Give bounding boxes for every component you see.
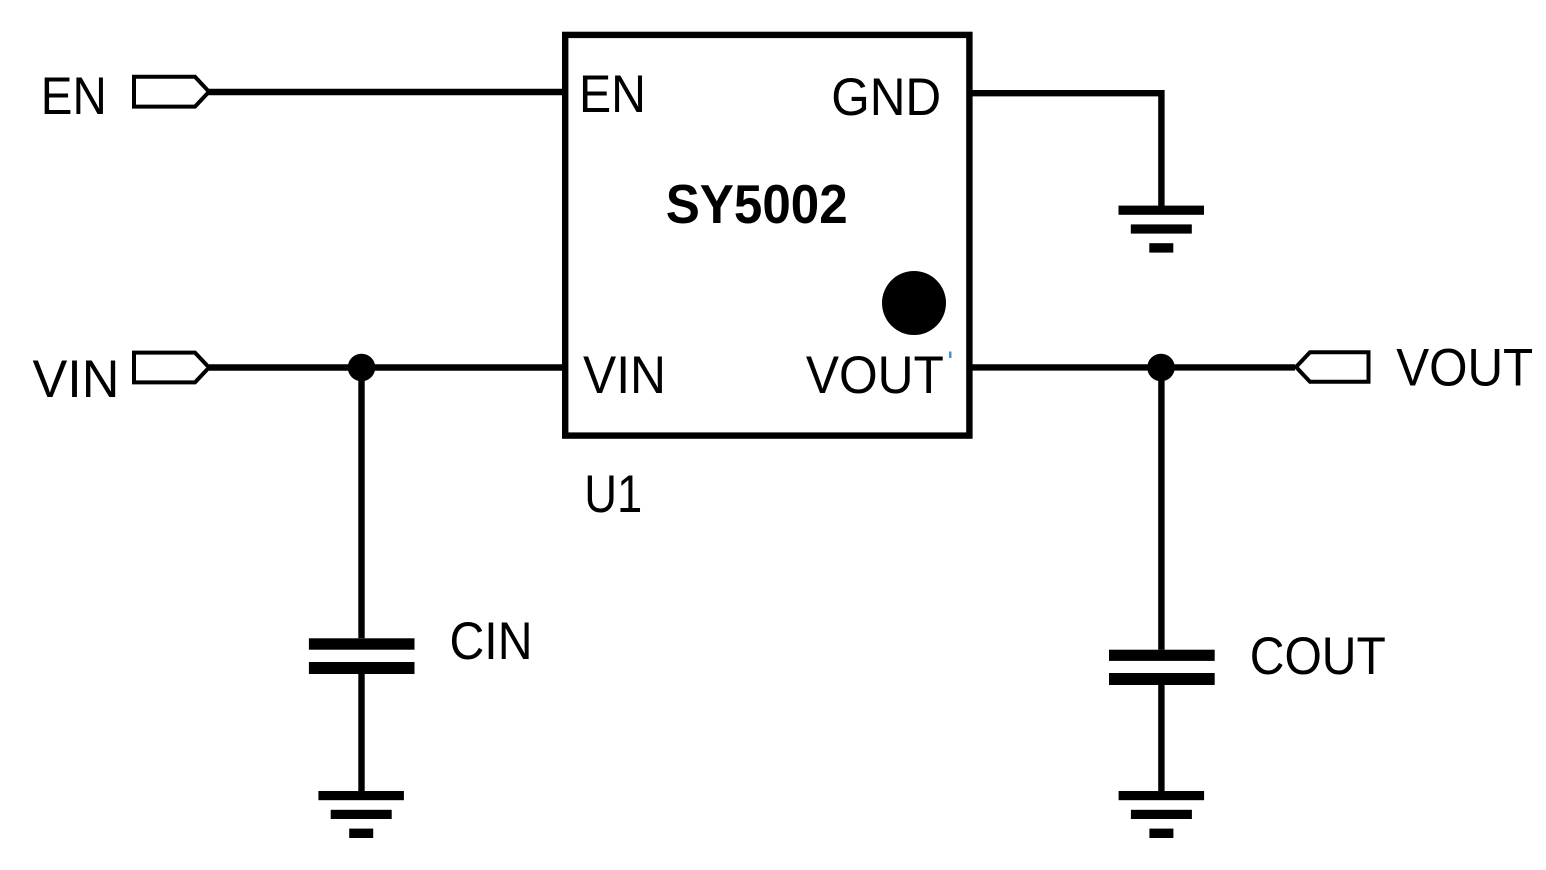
wire CIN to ground	[358, 674, 364, 792]
svg-text:EN: EN	[579, 65, 646, 124]
wire VOUT node down to COUT	[1158, 368, 1164, 650]
svg-text:VIN: VIN	[583, 346, 666, 405]
svg-text:COUT: COUT	[1250, 627, 1386, 686]
port VOUT	[1296, 352, 1369, 382]
op-amp U1 SY5002 regulator body	[565, 35, 969, 436]
wire EN port to EN pin	[207, 89, 565, 95]
svg-text:CIN: CIN	[450, 612, 533, 671]
svg-text:SY5002: SY5002	[666, 173, 848, 235]
port EN	[134, 77, 209, 107]
port VIN	[134, 353, 209, 383]
capacitor CIN bottom plate	[309, 662, 415, 674]
svg-text:VOUT: VOUT	[806, 346, 944, 405]
svg-text:EN: EN	[41, 67, 107, 126]
stray blue tick artifact	[949, 352, 952, 359]
ground (CIN)	[318, 791, 404, 838]
svg-text:VIN: VIN	[33, 350, 120, 409]
ground (GND pin)	[1119, 206, 1205, 253]
svg-text:GND: GND	[831, 68, 941, 127]
ground (COUT)	[1119, 791, 1205, 838]
wire GND pin to ground	[969, 93, 1161, 206]
wire COUT to ground	[1158, 685, 1164, 792]
node junction at VIN	[348, 354, 376, 382]
node junction at VOUT	[1147, 354, 1175, 382]
wire VIN port to VIN pin	[209, 364, 565, 370]
pin-1 marker dot	[882, 271, 946, 335]
wire VOUT pin to VOUT port	[969, 364, 1295, 370]
svg-text:U1: U1	[584, 465, 642, 524]
capacitor CIN top plate	[309, 638, 415, 649]
capacitor COUT bottom plate	[1109, 673, 1215, 685]
capacitor COUT top plate	[1109, 650, 1215, 661]
wire VIN node down to CIN	[358, 368, 364, 639]
svg-text:VOUT: VOUT	[1396, 339, 1533, 398]
